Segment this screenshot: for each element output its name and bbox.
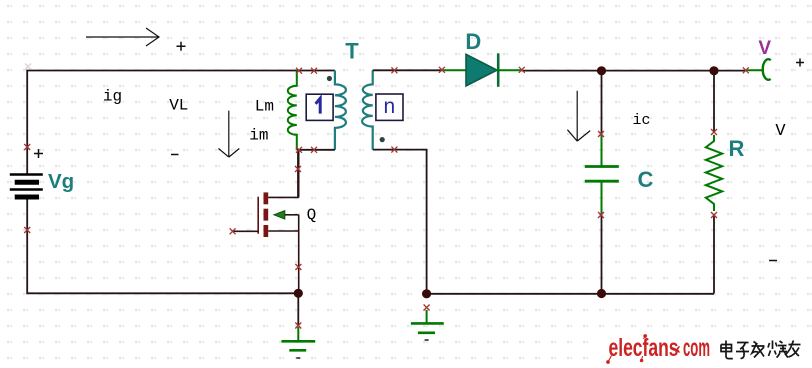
marker drain pin [295, 166, 301, 172]
marker battery - pin [24, 227, 30, 233]
svg-text:V: V [758, 38, 771, 59]
faint marker at top-left corner [25, 64, 31, 70]
svg-text:ic: ic [632, 112, 650, 129]
marker Lm top pin [296, 68, 302, 74]
wire: source node to ground 1 [297, 293, 299, 326]
svg-text:T: T [345, 38, 359, 63]
wire: secondary bottom to ground node [373, 150, 427, 294]
marker Lm bottom pin [296, 147, 302, 153]
svg-text:Q: Q [307, 206, 317, 224]
marker capacitor bottom pin [598, 212, 604, 218]
diode D [466, 53, 498, 87]
svg-text:ig: ig [103, 88, 122, 106]
primary dot (polarity) [327, 76, 332, 81]
marker ground 1 pin [295, 323, 301, 329]
marker secondary top pin [391, 67, 397, 73]
character 烧 [768, 341, 788, 358]
elecfans logo text [609, 334, 711, 362]
marker diode anode pin [439, 67, 445, 73]
output port lead [746, 69, 763, 71]
box label n [376, 94, 403, 120]
marker secondary bottom pin [391, 147, 397, 153]
secondary dot (polarity) [380, 137, 385, 142]
battery source Vg [10, 175, 43, 198]
resistor R [706, 135, 722, 211]
marker gate pin [230, 228, 236, 234]
diode D cathode lead [498, 69, 522, 71]
svg-text:R: R [729, 136, 745, 161]
marker battery + pin [24, 144, 30, 150]
svg-text:Lm: Lm [255, 98, 274, 116]
svg-text:C: C [638, 167, 654, 192]
chinese characters 电子发烧友 [721, 341, 801, 359]
arrow ig (current direction) [86, 28, 159, 46]
svg-text:‹: ‹ [676, 341, 681, 358]
capacitor C [585, 134, 619, 215]
marker source pin [295, 264, 301, 270]
logo decoration traces [607, 335, 647, 364]
capacitor C branch wire bottom [601, 215, 603, 294]
junction node secondary ground [422, 289, 431, 298]
svg-text:D: D [465, 29, 481, 54]
label - (VL) [171, 154, 179, 156]
wire: bottom right rail [427, 293, 714, 295]
svg-text:V: V [775, 122, 786, 141]
character 子 [736, 343, 749, 359]
wire: top rail from source to transformer [27, 71, 335, 175]
svg-text:com: com [683, 334, 710, 362]
wire: secondary top to diode [373, 69, 442, 71]
marker resistor top pin [711, 129, 717, 135]
character 友 [785, 341, 801, 358]
junction node top of R [709, 66, 718, 75]
marker resistor bottom pin [711, 212, 717, 218]
diode D anode lead [442, 69, 466, 71]
character 发 [752, 342, 765, 358]
wire: diode to output node [522, 70, 746, 72]
ground 1 [281, 327, 315, 358]
ground 2 [411, 310, 444, 340]
junction node top of C [597, 66, 606, 75]
inductor Lm winding [288, 71, 297, 150]
marker output port pin [743, 67, 749, 73]
marker diode cathode pin [519, 67, 525, 73]
box label 1 [306, 94, 333, 120]
arrow im [219, 111, 240, 158]
marker primary top pin [311, 68, 317, 74]
transformer T secondary winding n [362, 70, 373, 149]
marker primary bottom pin [311, 147, 317, 153]
wire: bottom left rail from source to MOSFET source node [27, 198, 298, 293]
pin markers (x) [24, 67, 749, 329]
marker ground 2 pin [424, 305, 430, 311]
transformer T primary winding 1 [335, 71, 346, 150]
MOSFET Q [233, 150, 299, 293]
resistor R branch wire top [713, 71, 715, 132]
label - (output) [769, 260, 777, 262]
output port V [763, 59, 771, 80]
label + (top) [177, 42, 186, 51]
character 电 [721, 341, 733, 359]
svg-text:im: im [249, 127, 268, 145]
arrow ic [567, 91, 590, 141]
wire: transformer bottom rail [297, 149, 335, 151]
junction node MOSFET source [294, 289, 303, 298]
label + (battery) [34, 149, 43, 158]
resistor R branch wire bottom [713, 215, 715, 294]
junction node bottom of C [597, 289, 606, 298]
capacitor C branch wire top [601, 71, 603, 134]
elecfans watermark backdrop [597, 330, 812, 365]
wire: drain vertical [297, 150, 299, 198]
svg-text:n: n [384, 95, 396, 118]
svg-text:Vg: Vg [48, 170, 74, 193]
marker capacitor top pin [598, 131, 604, 137]
svg-text:VL: VL [169, 96, 188, 114]
label + (output) [796, 59, 804, 67]
